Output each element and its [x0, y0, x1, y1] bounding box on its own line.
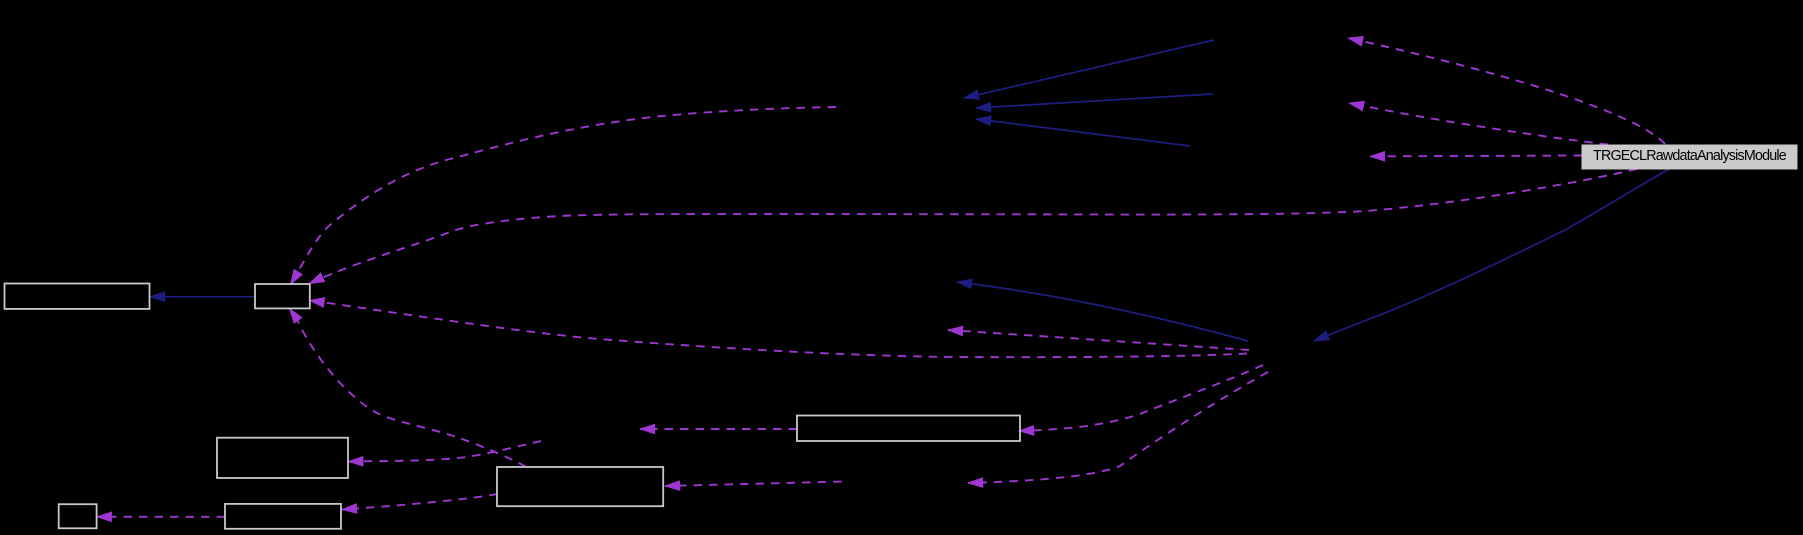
svg-text:TRGECLRawdataAnalysisModule: TRGECLRawdataAnalysisModule [1593, 148, 1787, 164]
